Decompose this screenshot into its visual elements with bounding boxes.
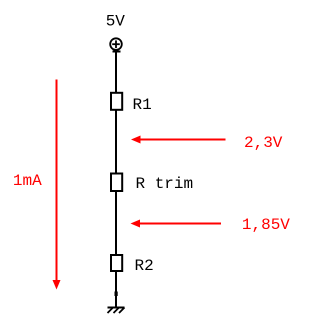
value label 1,85V	[242, 216, 290, 234]
resistor R1	[111, 93, 122, 110]
current arrow 1mA	[53, 80, 61, 290]
svg-text:R2: R2	[135, 257, 154, 275]
svg-text:2,3V: 2,3V	[244, 134, 283, 152]
voltage arrow node B (1,85V)	[131, 220, 222, 228]
resistor R trim	[111, 174, 122, 192]
voltage arrow node A (2,3V)	[131, 136, 226, 144]
wire R trim to R2	[115, 192, 117, 254]
wire R2 to ground	[115, 272, 117, 308]
svg-text:1mA: 1mA	[13, 172, 42, 190]
svg-text:R1: R1	[133, 96, 152, 114]
label R2	[135, 257, 154, 275]
wire R1 to R trim	[115, 111, 117, 173]
ground	[108, 308, 125, 314]
label R trim	[136, 175, 194, 193]
value label 1mA	[13, 172, 42, 190]
pin stub of supply terminal	[113, 51, 121, 53]
power supply terminal U1 (+)	[110, 38, 122, 50]
svg-text:5V: 5V	[106, 12, 126, 30]
wire supply to R1	[115, 51, 117, 92]
node 5V label	[106, 12, 126, 30]
resistor R2	[111, 255, 122, 271]
value label 2,3V	[244, 134, 283, 152]
svg-text:R trim: R trim	[136, 175, 194, 193]
svg-text:1,85V: 1,85V	[242, 216, 290, 234]
label R1	[133, 96, 152, 114]
wire junction knot above ground	[115, 292, 118, 297]
